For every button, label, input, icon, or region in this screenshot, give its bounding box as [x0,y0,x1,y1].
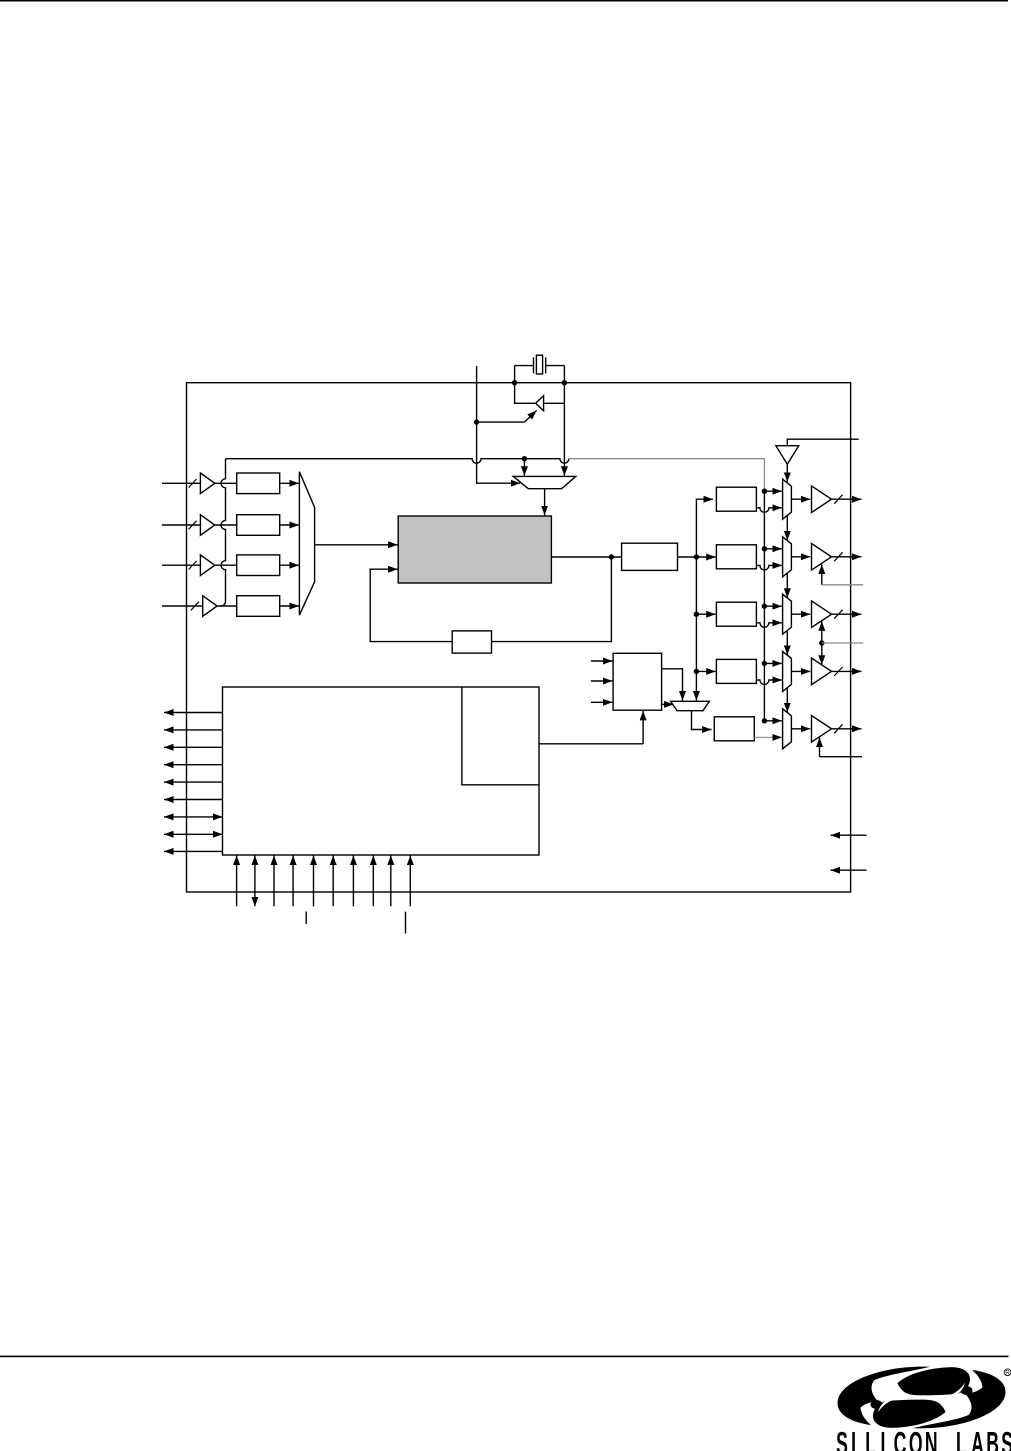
chip outer boundary [187,383,851,892]
block U4 control and register box [223,687,540,855]
wire CLK0 slash [834,495,842,504]
node rail row4 junction [762,661,767,666]
buffer D1 output driver [812,544,832,571]
wire MS2 to mux row3 [756,623,782,628]
svg-text:A: A [971,1427,984,1451]
wire clock mux to PLL [544,489,546,516]
OEB control triangle [776,446,799,465]
wire INC pin arrow [831,834,867,836]
wire mux to driver row3 [791,613,810,615]
block U5 NVM sub-box [462,687,539,785]
wire input IN3 [162,564,200,566]
wire U3 side stub to M7 [662,703,674,705]
wire U3 input stub 1 [591,660,613,662]
PLL block U2 [398,516,551,583]
wire XTAL enable vertical [477,366,521,483]
buffer D2 output driver [812,601,832,628]
wire bypass distribution rail [763,491,765,721]
wire config pin 6 [332,856,334,907]
wire input mux to PLL [315,544,398,546]
wire input4 tap vertical with hops [221,459,226,606]
wire status pin 8 [164,833,223,835]
wire status pin 9 [164,850,223,852]
wire XA pin vertical upper [563,366,565,383]
resistor-divider P2 [237,515,280,536]
svg-text:R: R [1005,1370,1010,1377]
wire mux cascade row4 to row5 [786,688,788,713]
wire mux to driver row1 [791,498,810,500]
mux M0 reference clock mux [513,476,576,488]
svg-text:O: O [909,1427,923,1451]
svg-text:C: C [894,1427,907,1451]
wire U3 bottom arrow [642,711,644,744]
wire U3 input stub 3 [591,701,613,703]
svg-text:B: B [986,1427,999,1451]
wire feedback return [370,569,452,641]
wire CLK1 slash [834,552,842,561]
svg-text:S: S [836,1427,848,1451]
wire input IN1 [162,482,200,484]
wire M7 to MS4 [692,711,712,730]
wire CLK2 slash [834,610,842,619]
wire input IN4 [162,605,203,607]
wire CLK1 output [832,556,862,558]
op-amp U1 oscillator inverter [536,396,544,411]
resistor-divider P1 [237,473,280,494]
mux M3 output mux row2 [783,537,792,577]
wire IN4 slash [191,602,199,611]
node driver enable junction [819,640,824,645]
wire MS1 to mux row2 [756,565,782,570]
wire mux cascade row3 to row4 [786,631,788,655]
wire CLK4 output [832,728,862,730]
wire driver D4 enable pin [820,756,863,758]
node gain control junction [474,419,479,424]
svg-text:S: S [1001,1427,1011,1451]
wire MS4 to mux row5 [754,736,782,738]
wire CLK3 slash [834,667,842,676]
resistor-divider P3 [237,555,280,576]
wire status pin 3 [164,746,223,748]
mux M1 input clock mux [299,472,314,615]
wire control box to U3 [539,743,643,745]
node XB junction [512,380,517,385]
logo wordmark SILICON LABS [836,1427,1011,1451]
wire status pin 1 [164,712,223,714]
wire IN2 slash [189,521,197,530]
wire mux to driver row2 [791,556,810,558]
wire P3 to input mux [280,564,299,566]
divider MS4 multisynth [714,717,754,741]
wire config pin 2 [254,856,256,907]
wire R0 output to MS2 [678,556,716,558]
wire config pin 3 [273,856,275,907]
wire rail to mux row4 [764,662,782,664]
wire IN1 slash [189,479,197,488]
wire MS rail to row3 divider [696,613,715,615]
divider FB feedback divider [452,631,491,653]
wire mux cascade row2 to row3 [786,573,788,598]
wire driver D2 D3 enable pin gray [822,642,863,644]
resistor-divider P4 [237,596,280,617]
node MS rail row4 junction [694,669,699,674]
wire MS rail to row4 divider [696,670,715,672]
wire driver D4 enable arrow [819,738,821,757]
wire bypass drop to clock mux [523,459,525,476]
wire config pin 8 [372,856,374,907]
wire U3 to clock mux M7 [662,669,683,701]
wire MS0 to mux row1 [756,508,782,513]
logo registered trademark [1004,1369,1011,1377]
node MS rail junction [694,554,699,559]
crystal X1 left plate [533,357,535,373]
wire XA to clock mux [563,383,565,476]
wire input IN2 [162,524,200,526]
wire DEC pin arrow [831,869,867,871]
wire mux to driver row4 [791,670,810,672]
wire U3 input stub 2 [591,680,613,682]
buffer B1 input [200,473,214,494]
wire MS rail up to row1 [696,499,713,557]
wire rail to mux row2 [764,548,782,550]
wire OEB to mux row1 [786,464,788,482]
wire CLK4 slash [834,724,842,733]
wire B2 to divider [215,524,237,526]
buffer D4 output driver [812,716,832,743]
wire crystal loop top right [546,365,565,367]
crystal X1 body [536,355,542,374]
mux M7 MS4 source mux [671,701,710,710]
wire XB to oscillator inverter input [515,383,536,404]
divider MS1 multisynth [716,545,756,569]
wire P1 to input mux [280,482,299,484]
wire status pin 7 [164,816,223,818]
wire config pin 10 [409,856,411,907]
wire driver D3 enable arrow [821,643,823,665]
node PLL output junction [609,554,614,559]
node bypass junction [522,456,527,461]
top rule [0,0,1008,2]
wire XB pin vertical [514,366,516,383]
wire driver D2 enable arrow [821,621,823,643]
wire gain control horizontal [477,421,525,423]
wire status pin 2 [164,729,223,731]
wire driver D1 enable pin gray [822,584,863,586]
wire P4 to input mux [280,605,299,607]
wire rail to mux row1 [764,490,782,492]
wire config pin 1 [236,856,238,907]
node rail row2 junction [762,546,767,551]
wire mux to driver row5 [791,728,810,730]
wire crystal loop top left [515,365,534,367]
wire MS3 to mux row4 [756,680,782,685]
wire CLK2 output [832,613,862,615]
crystal X1 right plate [545,357,547,373]
wire rail to mux row5 [764,720,782,722]
node rail row1 junction [762,489,767,494]
wire IN3 slash [189,561,197,570]
wire config pin 5 [313,856,315,907]
svg-text:N: N [925,1427,938,1451]
wire config pin 9 [390,856,392,907]
wire rail to mux row3 [764,605,782,607]
wire inverter output to XA [544,402,565,404]
wire reference bypass rail black [226,459,569,464]
wire mux cascade row1 to row2 [786,516,788,541]
buffer D0 output driver [812,486,832,513]
divider MS2 multisynth [716,602,756,626]
wire B1 to divider [215,482,237,484]
mux M2 output mux row1 [783,479,792,519]
buffer B4 input [203,596,217,617]
footer rule [0,1356,1009,1358]
buffer B3 input [200,555,214,576]
wire bypass rail gray [569,459,765,492]
wire config pin 7 [352,856,354,907]
node MS rail row3 junction [694,612,699,617]
buffer D3 output driver [812,658,832,685]
wire status pin 6 [164,799,223,801]
wire OEB pin [787,439,858,446]
node tick mark 2 [405,912,407,934]
wire config pin 4 [292,856,294,907]
wire feedback drop [492,557,612,642]
divider MS0 multisynth [716,487,756,511]
wire status pin 4 [164,764,223,766]
wire CLK0 output [832,498,862,500]
wire P2 to input mux [280,524,299,526]
svg-text:I: I [851,1427,856,1451]
svg-text:L: L [956,1427,967,1451]
svg-text:L: L [865,1427,876,1451]
node rail row5 junction [762,718,767,723]
mux M5 output mux row4 [783,651,792,691]
node tick mark 1 [305,912,307,925]
wire CLK3 output [832,670,862,672]
wire gain control diagonal arrow [524,411,536,423]
mux M6 output mux row5 [783,709,792,749]
buffer B2 input [200,515,214,536]
svg-text:I: I [880,1427,885,1451]
wire status pin 5 [164,781,223,783]
wire PLL output [551,556,621,558]
wire B3 to divider [215,564,237,566]
wire driver D1 enable arrow [821,565,823,585]
divider MS3 multisynth [716,659,756,683]
Silicon Labs logo swirl [838,1367,1006,1429]
wire B4 to divider [217,605,237,607]
mux M4 output mux row3 [783,594,792,634]
divider R0 output stage divider [622,543,678,570]
block U3 clock select logic [613,653,662,710]
node XA junction [562,380,567,385]
node rail row3 junction [762,604,767,609]
wire MS rail down [695,557,697,701]
